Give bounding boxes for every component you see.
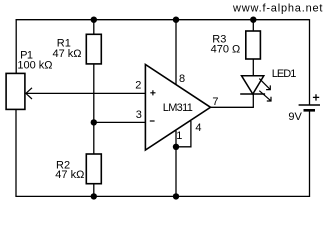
svg-text:7: 7 (212, 96, 218, 108)
junction dot pin1-pin4 (173, 144, 179, 150)
junction dot bottom R2 (91, 193, 97, 199)
resistor R1 (86, 34, 101, 64)
wire R3 to LED (252, 59, 254, 76)
svg-text:LED1: LED1 (272, 68, 296, 80)
battery negative plate (304, 109, 316, 112)
svg-text:3: 3 (136, 109, 142, 121)
wire output pin7 (211, 106, 254, 108)
battery plus marker (313, 94, 319, 100)
junction dot bottom ground (173, 193, 179, 199)
junction dot top R1 (91, 17, 97, 23)
wire pin4 (176, 121, 191, 147)
minus input marker (150, 120, 155, 122)
wire top rail (16, 19, 310, 21)
wire R2 bottom stub (93, 184, 95, 197)
resistor R3 (246, 31, 261, 59)
svg-text:47 kΩ: 47 kΩ (55, 169, 84, 181)
svg-text:4: 4 (195, 122, 201, 134)
svg-text:2: 2 (135, 79, 141, 91)
op-amp U1 LM311 triangle (145, 65, 210, 151)
wire left rail upper (15, 19, 17, 73)
svg-text:9V: 9V (288, 111, 302, 123)
LED1 arrow 1 (259, 79, 270, 90)
svg-text:www.f-alpha.net: www.f-alpha.net (232, 2, 323, 14)
wire wiper to pin2 (26, 92, 145, 94)
svg-text:470 Ω: 470 Ω (211, 44, 241, 56)
wire right rail lower (309, 110, 311, 197)
potentiometer P1 (6, 73, 25, 109)
junction dot top R3 (250, 17, 256, 23)
P1 wiper arrowhead (26, 88, 32, 99)
wire R3 top stub (252, 20, 254, 31)
wire pin3 (94, 121, 146, 123)
svg-text:1: 1 (176, 130, 182, 142)
junction dot node pin3 (91, 119, 97, 125)
wire pin1 down to ground rail (175, 131, 177, 197)
wire pin8 (175, 20, 177, 85)
wire R1 to R2 (93, 64, 95, 154)
svg-text:8: 8 (179, 73, 185, 85)
wire R1 top stub (93, 20, 95, 35)
svg-text:LM311: LM311 (163, 102, 193, 114)
plus input marker (150, 90, 155, 95)
wire bottom rail (15, 195, 309, 197)
wire LED cathode down (252, 94, 254, 107)
wire left rail lower (15, 109, 17, 196)
svg-text:47 kΩ: 47 kΩ (53, 48, 82, 60)
battery BT1 positive plate (299, 104, 320, 106)
LED1 triangle (242, 76, 264, 94)
wire right rail upper (309, 19, 311, 105)
LED1 cathode bar (240, 93, 265, 95)
svg-text:100 kΩ: 100 kΩ (17, 60, 52, 72)
LED1 arrow 2 (259, 91, 271, 101)
junction dot top pin8 (173, 17, 179, 23)
resistor R2 (86, 154, 101, 184)
